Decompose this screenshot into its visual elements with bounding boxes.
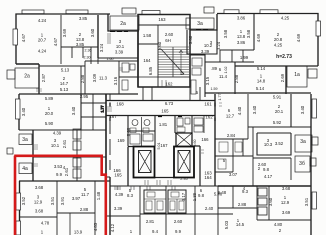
svg-text:3.09: 3.09 [92,73,97,82]
svg-text:1.81: 1.81 [159,122,168,127]
outer wall right lower [310,94,312,235]
svg-text:3.86: 3.86 [237,40,246,45]
svg-text:4.39: 4.39 [115,192,124,197]
texts top-right apartment [188,16,301,61]
svg-text:165: 165 [114,173,122,178]
svg-text:3.40: 3.40 [71,106,76,115]
corridor left doors [109,94,111,170]
svg-text:5.90: 5.90 [45,121,54,126]
bath 5 right lower [215,156,233,172]
svg-text:3a: 3a [22,137,28,143]
vestibule band verticals [143,87,200,100]
svg-text:169: 169 [117,138,125,143]
svg-text:13.8: 13.8 [237,34,246,39]
wall 13.8 bottom [61,46,98,48]
window left wall 20.0 [16,99,21,119]
balcony 2a stub [7,70,15,79]
svg-text:166: 166 [201,137,209,142]
texts right-mid [218,66,305,229]
svg-text:2.40: 2.40 [180,177,187,181]
bath partition left apt [119,76,138,78]
svg-text:3б: 3б [299,161,305,167]
svg-text:5.14: 5.14 [257,66,266,71]
elevator shaft A outer [134,147,155,178]
svg-text:3.91: 3.91 [60,196,65,205]
red labels [109,38,213,180]
texts bottom-centre [110,188,223,234]
svg-text:13.9: 13.9 [74,230,83,235]
shaft boxes between 9.3 and 12.9r [258,188,267,215]
right-bottom apartment walls [214,131,216,186]
svg-text:3.68: 3.68 [35,185,44,190]
svg-text:.89: .89 [211,66,218,71]
lift lobby south wall [154,177,174,179]
wall 13.8r/20.8 [253,14,255,50]
svg-text:3.07: 3.07 [229,172,238,177]
wall behind balcony 3a top [190,14,217,30]
svg-text:10.1: 10.1 [51,143,60,148]
room 12.9 bottom wall [19,216,57,218]
svg-text:167: 167 [160,143,168,148]
closets right of 20.0 [81,94,106,130]
core right wall [214,94,216,131]
room 12.9 right wall [56,181,58,235]
balcony 4a left [19,163,32,174]
svg-text:2.69: 2.69 [280,73,285,82]
svg-text:3a: 3a [197,21,203,27]
svg-text:6.60: 6.60 [193,140,197,147]
svg-text:5.13: 5.13 [61,68,70,73]
svg-text:5.01: 5.01 [157,143,161,150]
svg-text:10.1: 10.1 [116,44,125,49]
svg-text:3.15: 3.15 [205,76,210,85]
window left 12.9 [16,193,21,210]
svg-text:2.88: 2.88 [234,74,239,83]
bath suite right 2.84 [215,127,253,186]
svg-text:14.7: 14.7 [60,81,69,86]
balcony 3a top [186,18,214,29]
svg-text:1a: 1a [294,72,300,78]
svg-text:2.60: 2.60 [165,32,174,37]
balcony 3a left [19,134,32,145]
svg-text:4.67: 4.67 [53,37,58,46]
svg-text:3.24: 3.24 [99,43,104,52]
balcony 3a bump [204,7,214,13]
bath block top-centre [190,55,205,97]
svg-text:3.40: 3.40 [300,105,305,114]
closets under 13.8r [220,50,254,62]
svg-text:162: 162 [205,115,213,120]
texts stair core [117,17,228,181]
svg-text:4.39: 4.39 [53,131,62,136]
balcony 1a right [287,66,307,87]
wall y186 right [218,185,311,187]
svg-text:4.69: 4.69 [256,33,261,42]
svg-text:3.86: 3.86 [237,16,246,21]
svg-text:3a: 3a [300,139,306,145]
stairwell 163 outer [138,15,190,88]
svg-text:3.85: 3.85 [79,16,88,21]
outer wall left lower-mid [32,130,34,181]
elevator shaft B outer [174,147,194,178]
svg-text:161: 161 [204,102,212,107]
svg-text:3.68: 3.68 [282,186,291,191]
room 14.5 top [218,186,233,235]
window 163 top [142,11,160,15]
svg-text:12.7: 12.7 [226,114,235,119]
window right 12.9r [312,192,317,209]
wall 10.1 left-low [97,58,99,64]
svg-text:3.40: 3.40 [21,107,26,116]
svg-text:4.25: 4.25 [281,16,290,21]
svg-text:3.69: 3.69 [282,210,291,215]
svg-text:5.91: 5.91 [273,95,282,100]
window left wall room1 [13,29,18,45]
wall behind balcony 2a top [108,14,139,31]
svg-text:3.60: 3.60 [268,197,273,206]
centre-bottom apartment walls [140,186,195,235]
room 20.0 walls [19,94,106,130]
svg-text:11.7: 11.7 [81,192,90,197]
svg-text:4a: 4a [22,166,28,172]
svg-text:164: 164 [204,175,212,180]
core west wall mid [105,94,107,177]
bath block core-right [175,116,192,134]
svg-text:10.3: 10.3 [264,142,273,147]
stairwell 163 band [138,24,190,26]
core right wall lower [194,146,200,186]
window left bottom [16,221,21,235]
svg-text:1.60: 1.60 [107,57,114,61]
wall y157 room4 top [33,156,106,158]
svg-text:4.12: 4.12 [110,223,115,232]
svg-text:165: 165 [161,109,169,114]
balcony 2a top bump [122,8,136,14]
svg-text:5.89: 5.89 [45,96,54,101]
wall 13.8r bottom [220,49,254,51]
balcony 3a right stub [312,137,318,145]
svg-text:4.78: 4.78 [41,221,50,226]
room 14.7 walls [39,66,85,94]
stair flight hatching upper [158,47,189,77]
svg-text:3.51: 3.51 [304,197,309,206]
svg-text:3.40: 3.40 [252,105,257,114]
svg-text:2.84: 2.84 [227,133,236,138]
svg-text:20.0: 20.0 [45,111,54,116]
red apartment boundary [14,156,106,235]
room below 12.9 label [69,213,71,235]
stair lower flight hatch [158,80,166,87]
svg-text:5.92: 5.92 [273,120,282,125]
corridor 165 walls [106,101,215,116]
balcony 3b right stub [310,158,316,166]
duct shafts column [73,129,81,139]
svg-text:14.8: 14.8 [257,79,266,84]
svg-text:3.39: 3.39 [115,50,124,55]
svg-text:20.7: 20.7 [38,38,47,43]
svg-text:2.87: 2.87 [41,73,46,82]
svg-text:20.1: 20.1 [275,109,284,114]
svg-text:5.48: 5.48 [214,192,223,197]
stair landing walls [138,76,190,78]
wall 10.1 bottom [98,57,138,59]
entrance door marks corridor [110,103,215,122]
svg-text:2a: 2a [24,74,30,80]
svg-text:3.69: 3.69 [62,28,67,37]
svg-text:3.52: 3.52 [21,196,26,205]
wall 14.8 bottom y94 [205,92,311,94]
wall 13.8/10.1 [97,15,99,58]
svg-text:11.3: 11.3 [99,76,108,81]
svg-text:9.9: 9.9 [56,172,63,177]
svg-text:167: 167 [109,114,117,119]
svg-text:4.67: 4.67 [21,33,26,42]
svg-text:5.03: 5.03 [224,220,229,229]
svg-text:4.83: 4.83 [93,222,98,231]
door hatch balcony 2a top [110,30,208,32]
svg-text:3.85: 3.85 [76,42,85,47]
texts bottom-left apartment [21,185,101,235]
wall 20.8 bottom [235,65,318,67]
svg-text:1.02: 1.02 [224,67,228,74]
svg-text:9.4: 9.4 [152,229,159,234]
svg-text:2.60: 2.60 [174,219,183,224]
svg-text:6.73: 6.73 [165,101,174,106]
room 12.7 walls [215,94,248,139]
svg-text:20.8: 20.8 [274,37,283,42]
svg-text:2.61: 2.61 [62,139,67,148]
svg-text:4.17: 4.17 [264,174,273,179]
svg-text:1.58: 1.58 [143,33,152,38]
svg-text:2.88: 2.88 [80,74,85,83]
svg-text:5.14: 5.14 [256,86,265,91]
room 20.1 bottom [248,126,311,128]
wall y181 bold [19,180,110,182]
svg-text:2.95: 2.95 [80,94,89,99]
core west wall upper [137,31,139,87]
room 10.3r box [257,94,291,155]
svg-text:3.39: 3.39 [201,49,210,54]
svg-text:2.61: 2.61 [64,167,69,176]
window right wall 20.8 [316,21,321,36]
window 20.8 top [260,10,278,14]
balcony 3a right [295,135,312,152]
closet verticals under 13.8 [72,47,91,64]
room 10.2 box [187,30,217,54]
svg-text:2.40: 2.40 [205,206,214,211]
svg-text:2.88: 2.88 [80,207,89,212]
wall step balcony 2a left [38,64,40,94]
sink circles [141,117,143,146]
corridor stub walls under lifts [128,147,134,187]
svg-text:4.24: 4.24 [38,18,47,23]
door hatch marks [34,33,222,185]
svg-text:2.81: 2.81 [146,219,155,224]
corridor 11.3 walls [85,61,138,94]
outer wall top-right section [217,14,318,67]
room 9.8r walls [253,158,291,180]
balcony 3b right [295,156,310,172]
elevator shaft small [176,133,192,147]
svg-text:1.48: 1.48 [96,191,101,200]
svg-text:3.51: 3.51 [50,196,55,205]
svg-text:1.77: 1.77 [218,94,222,101]
svg-text:3.24: 3.24 [216,41,221,50]
bath block core-left [128,116,155,147]
svg-text:3.17: 3.17 [181,192,186,201]
wall room1 bottom [16,63,39,65]
svg-text:4.25: 4.25 [274,43,283,48]
bath fixtures top-centre [192,58,202,66]
svg-text:2a: 2a [120,21,126,27]
outer wall left bottom [19,181,21,235]
svg-text:4.69: 4.69 [296,33,301,42]
wall right of red v2 [109,177,111,235]
svg-text:3.58: 3.58 [223,29,228,38]
corridor below lifts [106,177,235,186]
room 10.1b right wall [76,130,78,181]
balcony labels [22,21,306,172]
svg-text:h=2.73: h=2.73 [276,54,292,60]
svg-text:2.88: 2.88 [238,202,247,207]
room 12.9r walls [257,186,311,220]
texts mid-left [21,94,89,177]
room 6 corridor walls [205,62,235,94]
svg-text:6.85: 6.85 [148,66,153,75]
bath boxes bottom-centre [144,190,186,213]
room 11.7 walls [57,181,95,235]
svg-text:8.3: 8.3 [127,193,134,198]
wall 20.7/13.8 [60,15,62,64]
svg-text:4.24: 4.24 [38,49,47,54]
svg-text:9.8: 9.8 [198,193,205,198]
cross wall y94 left [19,93,138,95]
svg-text:12.9: 12.9 [281,200,290,205]
svg-text:3.53: 3.53 [54,164,63,169]
svg-text:3.58: 3.58 [246,29,251,38]
balcony 2a left [15,68,39,88]
window room2 top [66,10,88,14]
stub box left red start [7,148,13,154]
svg-text:1.59: 1.59 [211,87,218,91]
svg-text:164: 164 [143,58,151,63]
room 9.3 box [233,186,257,220]
svg-text:11.4: 11.4 [219,74,228,79]
svg-text:3.52: 3.52 [275,141,284,146]
svg-text:3.60: 3.60 [188,35,193,44]
svg-text:6Н: 6Н [165,38,171,43]
svg-text:1.77: 1.77 [101,106,105,113]
texts bottom-right room 12.9 [268,186,309,233]
svg-text:5.60: 5.60 [157,41,162,50]
outer wall left mid [18,94,20,130]
bath fixtures left apt [122,63,129,72]
svg-text:4.40: 4.40 [237,106,242,115]
svg-text:4.80: 4.80 [274,222,283,227]
svg-text:3.39: 3.39 [114,206,123,211]
svg-text:5.13: 5.13 [60,87,69,92]
texts top-left apartment [21,16,125,92]
stair mid wall [138,25,158,87]
svg-text:2.30: 2.30 [84,56,91,60]
svg-text:8.66: 8.66 [126,127,131,136]
svg-text:163: 163 [158,17,166,22]
svg-text:2.36: 2.36 [85,49,92,53]
svg-text:1.39: 1.39 [192,192,197,201]
outer wall right 14.8/1a [285,66,287,94]
svg-text:168: 168 [116,102,124,107]
window 13.8r top [224,10,239,14]
balcony 1a stub [308,69,317,78]
svg-text:9.8: 9.8 [263,167,270,172]
window room1 top [22,10,44,14]
svg-text:3.97: 3.97 [72,196,81,201]
svg-text:3.60: 3.60 [90,28,95,37]
svg-text:12.9: 12.9 [34,200,43,205]
svg-text:3.16: 3.16 [113,76,118,85]
svg-text:1.99: 1.99 [240,55,249,60]
window right 20.1 [312,99,317,118]
balcony 2a top [110,16,139,30]
outer wall top-left section [16,14,110,64]
svg-text:3.68: 3.68 [35,209,44,214]
svg-text:162: 162 [165,82,173,87]
svg-text:9.9: 9.9 [175,229,182,234]
